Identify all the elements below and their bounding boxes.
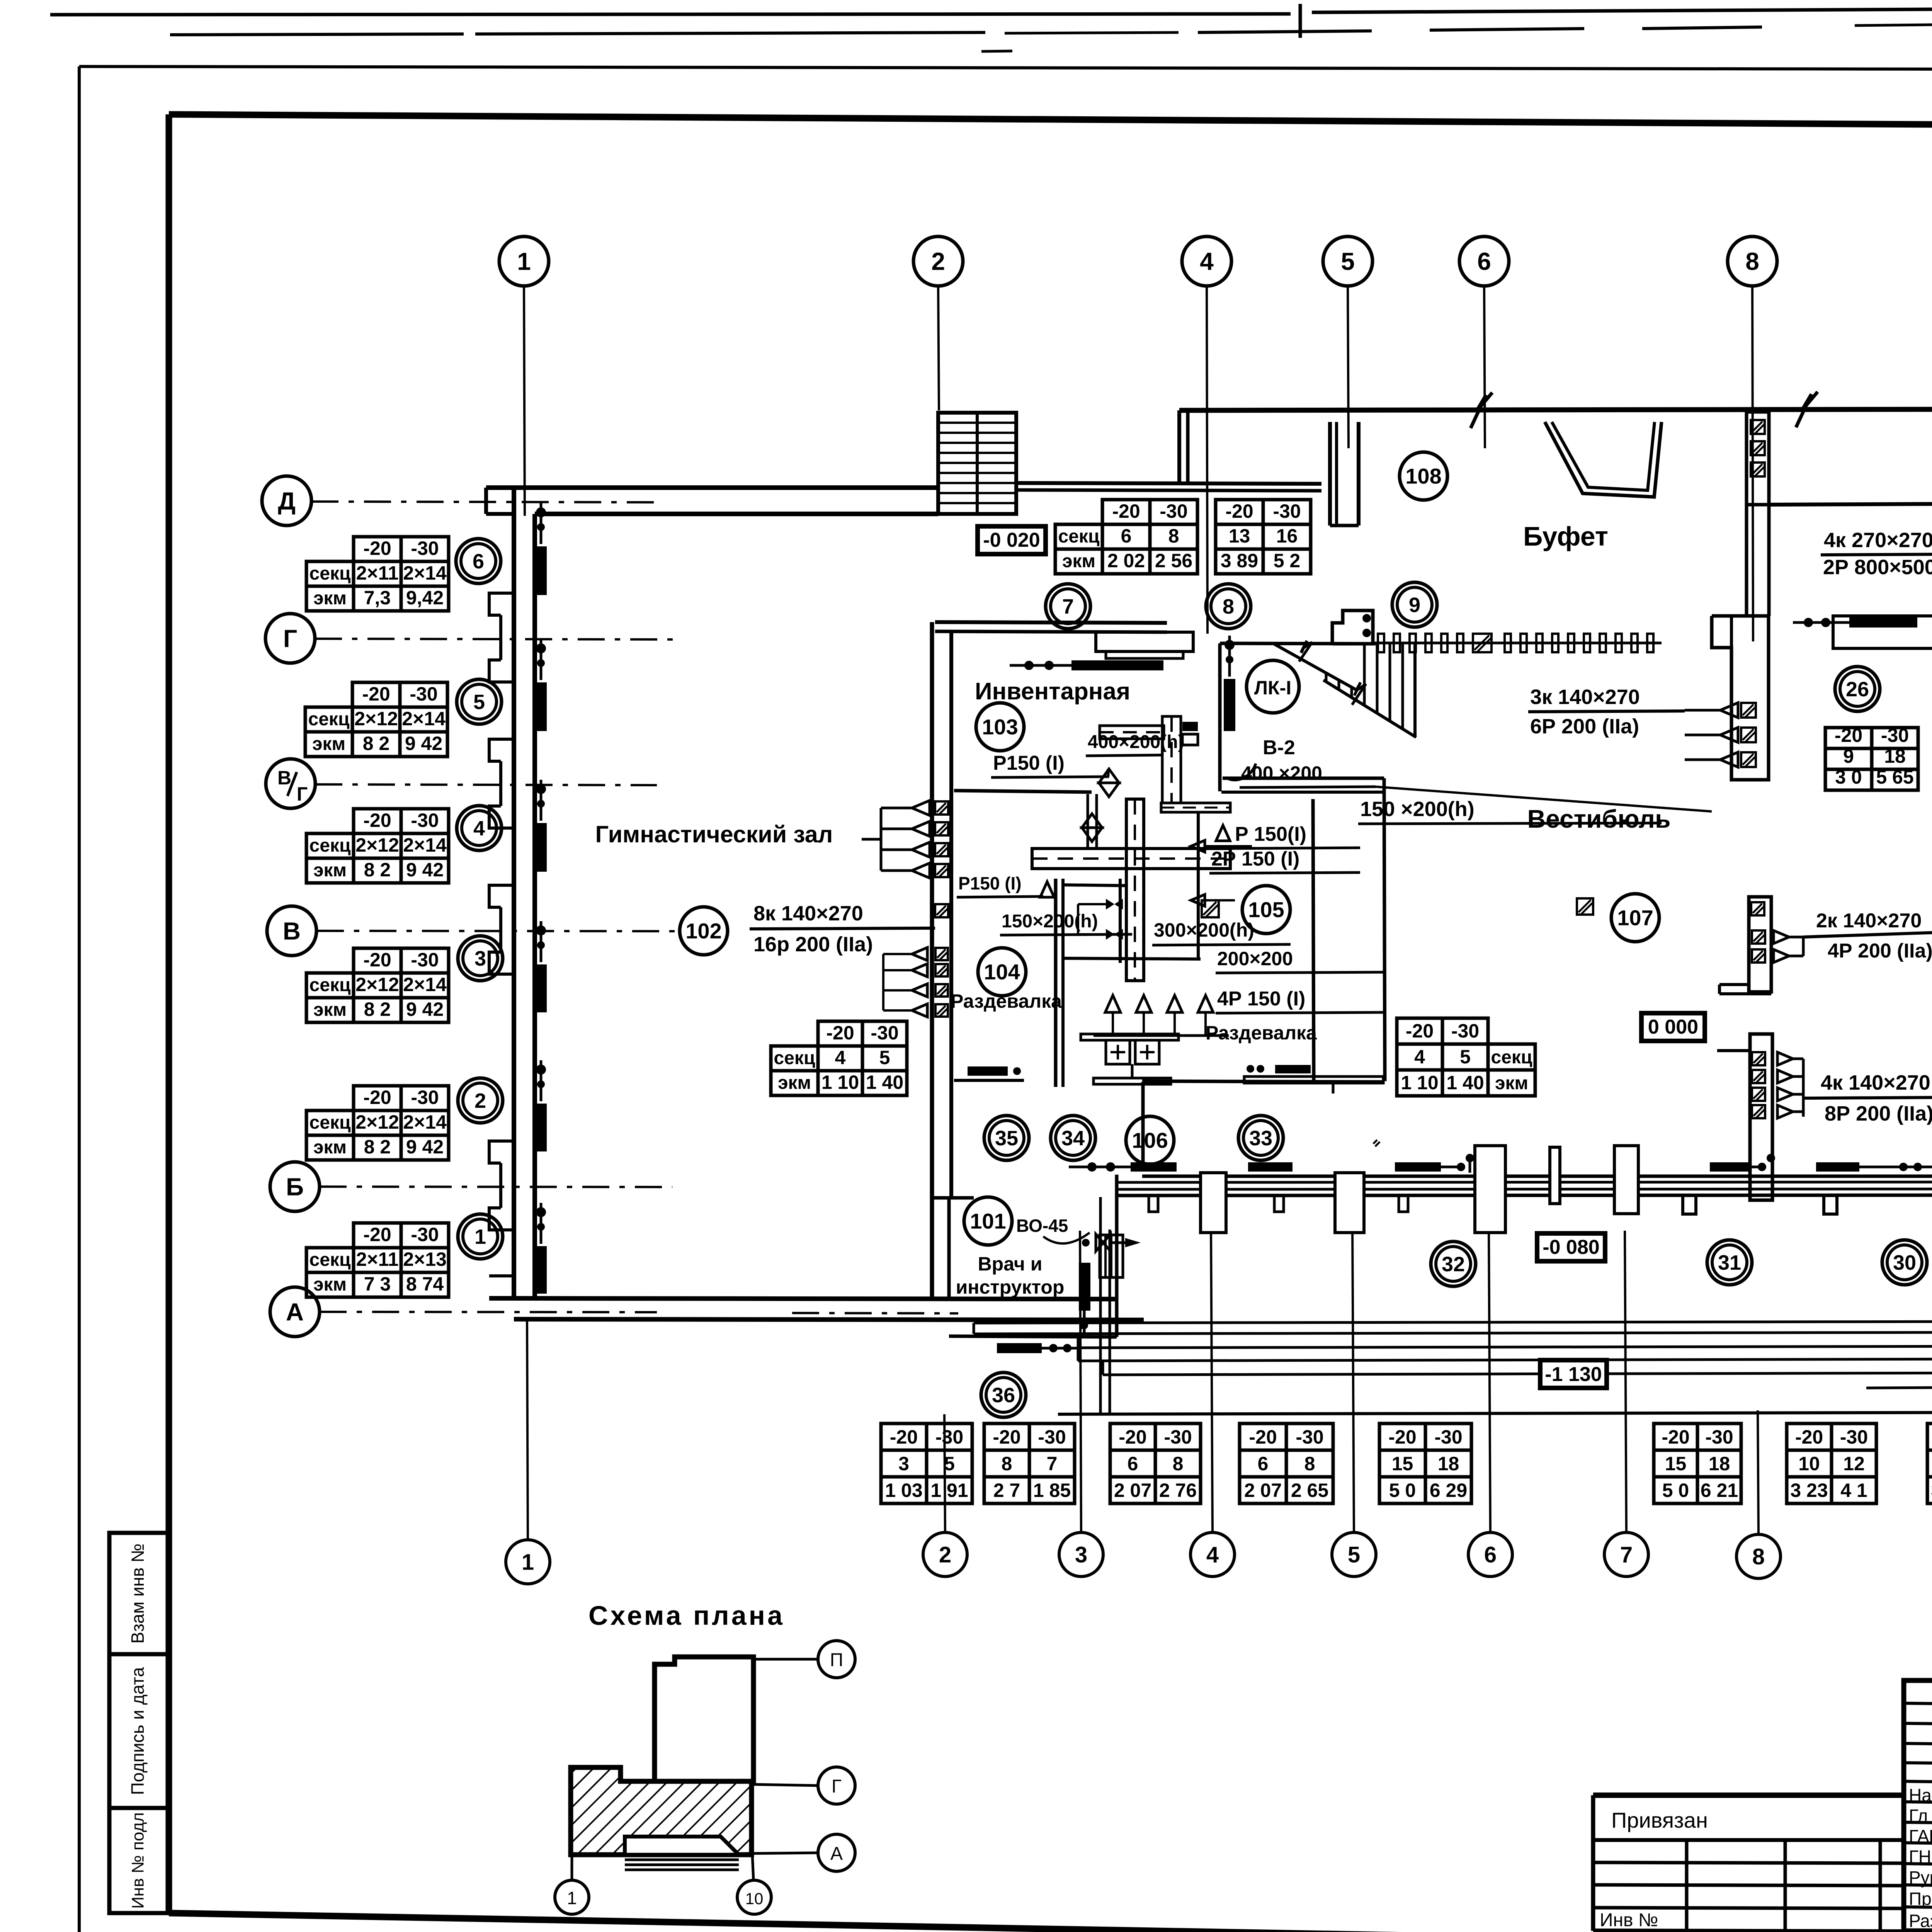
svg-text:7,3: 7,3 — [364, 587, 391, 609]
svg-text:8 2: 8 2 — [363, 733, 390, 754]
pier 4k at foyer south — [1750, 1034, 1772, 1200]
svg-text:5: 5 — [944, 1453, 955, 1475]
bench room 105 — [1244, 1077, 1383, 1083]
gym west wall radiators — [535, 546, 547, 595]
axis Б line left — [320, 1187, 672, 1187]
svg-text:10: 10 — [1798, 1453, 1820, 1475]
svg-text:18: 18 — [1709, 1453, 1730, 1475]
svg-text:экм: экм — [1062, 551, 1095, 571]
svg-text:2: 2 — [939, 1542, 951, 1567]
scan tick vertical — [1299, 4, 1302, 38]
partition wall 105 — [1313, 799, 1314, 1082]
svg-text:4: 4 — [835, 1047, 846, 1068]
svg-text:8: 8 — [1002, 1453, 1012, 1475]
svg-text:6Р 200 (IIа): 6Р 200 (IIа) — [1530, 715, 1639, 738]
svg-text:-1 130: -1 130 — [1545, 1363, 1602, 1386]
table riser 4 — [354, 809, 401, 833]
svg-text:Схема плана: Схема плана — [588, 1600, 785, 1631]
svg-text:2Р 800×500: 2Р 800×500 — [1823, 556, 1932, 579]
svg-text:4к 140×270: 4к 140×270 — [1821, 1071, 1930, 1094]
grid axis 4 line top — [1207, 286, 1207, 634]
grid3 line in channel — [1081, 1320, 1081, 1329]
buffet north-west corner wall — [1177, 410, 1181, 484]
svg-text:секц: секц — [308, 709, 350, 730]
room circle 103 — [976, 703, 1024, 751]
svg-text:2: 2 — [931, 247, 945, 275]
grid circle 5 bottom — [1332, 1532, 1376, 1577]
svg-text:8к 140×270: 8к 140×270 — [753, 902, 863, 925]
room circle 102 — [680, 907, 728, 955]
bottom table 7 — [1787, 1423, 1832, 1450]
staff table filler rows — [1904, 1703, 1932, 1706]
svg-text:4к 270×270: 4к 270×270 — [1824, 529, 1932, 552]
stair circle ЛК-I — [1247, 660, 1299, 713]
svg-text:18: 18 — [1884, 745, 1906, 767]
svg-text:7 3: 7 3 — [364, 1273, 391, 1295]
svg-text:16р 200 (IIа): 16р 200 (IIа) — [753, 933, 873, 956]
grid axis 5 line bottom — [1352, 1231, 1354, 1532]
svg-text:6: 6 — [1121, 525, 1132, 547]
table riser 7 — [1102, 500, 1150, 524]
svg-text:13: 13 — [1229, 525, 1250, 547]
hatch grille 105 — [1202, 900, 1219, 917]
svg-text:В-2: В-2 — [1263, 736, 1295, 759]
label P150(I) mid with triangle — [1216, 825, 1230, 841]
table riser 5 — [352, 682, 400, 707]
grid circle 1 top — [499, 236, 549, 286]
grid axis 2 line top — [938, 286, 939, 410]
svg-text:1 40: 1 40 — [1446, 1072, 1484, 1094]
svg-text:101: 101 — [970, 1209, 1006, 1233]
grid circle 4 top — [1182, 236, 1231, 286]
svg-text:102: 102 — [685, 919, 721, 943]
room ЛК-I walls — [1220, 643, 1376, 644]
svg-text:-20: -20 — [1249, 1426, 1277, 1448]
room circle 108 — [1400, 452, 1447, 500]
small return grilles mid — [1191, 840, 1205, 852]
room circle 105 — [1242, 886, 1290, 934]
svg-text:секц: секц — [774, 1048, 815, 1068]
svg-text:-30: -30 — [935, 1426, 963, 1448]
heating mains channel pipes — [974, 1321, 1932, 1323]
svg-text:4Р 150 (I): 4Р 150 (I) — [1217, 988, 1305, 1010]
svg-text:2×14: 2×14 — [403, 974, 447, 995]
svg-text:-20: -20 — [363, 949, 391, 971]
svg-text:108: 108 — [1405, 464, 1441, 488]
return grilles bowties — [1106, 899, 1114, 910]
svg-text:5 0: 5 0 — [1389, 1480, 1416, 1501]
svg-text:7: 7 — [1620, 1542, 1633, 1567]
grid axis 8 line bottom — [1758, 1410, 1759, 1534]
bottom table 6 — [1654, 1423, 1697, 1450]
svg-text:-30: -30 — [1164, 1426, 1192, 1448]
svg-text:Разраб: Разраб — [1909, 1911, 1932, 1931]
gym east wall — [930, 622, 934, 1298]
svg-text:8 74: 8 74 — [406, 1273, 444, 1295]
partition 105 wall vertical — [1197, 811, 1200, 960]
svg-text:Инвентарная: Инвентарная — [975, 678, 1130, 705]
title block staff table frame — [1904, 1680, 1932, 1931]
bottom table 1 — [881, 1423, 927, 1450]
svg-text:32: 32 — [1442, 1253, 1465, 1276]
svg-text:9,42: 9,42 — [406, 587, 444, 609]
level box -0080 — [1537, 1233, 1605, 1261]
svg-text:8: 8 — [1745, 247, 1759, 275]
svg-text:-20: -20 — [363, 810, 391, 831]
svg-text:2 02: 2 02 — [1107, 550, 1145, 571]
svg-text:5: 5 — [879, 1047, 890, 1068]
svg-text:6 21: 6 21 — [1701, 1480, 1738, 1501]
riser circle 7 — [1046, 584, 1090, 629]
room 101 walls — [932, 1196, 974, 1200]
svg-text:300×200(h): 300×200(h) — [1154, 919, 1254, 941]
svg-text:-20: -20 — [993, 1426, 1020, 1448]
svg-text:Взам инв №: Взам инв № — [128, 1543, 148, 1643]
riser circle 32 — [1431, 1242, 1476, 1286]
svg-text:6: 6 — [1258, 1453, 1269, 1475]
svg-text:2×11: 2×11 — [356, 1248, 399, 1270]
long bottom line — [1058, 1411, 1932, 1414]
key plan axis А — [739, 1853, 818, 1854]
axis circle В/Г — [266, 759, 315, 808]
riser circle 26 — [1835, 667, 1880, 711]
svg-text:6: 6 — [473, 550, 484, 573]
svg-text:4: 4 — [1200, 247, 1214, 275]
svg-text:2 7: 2 7 — [993, 1480, 1020, 1501]
svg-text:106: 106 — [1132, 1128, 1168, 1153]
level box -0020 top — [978, 526, 1046, 554]
grid axis 6 line top — [1484, 286, 1485, 448]
svg-text:5: 5 — [1341, 247, 1355, 275]
svg-text:5: 5 — [1348, 1542, 1360, 1567]
svg-text:2×14: 2×14 — [402, 708, 446, 730]
grid circle 5 top — [1323, 236, 1372, 286]
svg-text:2×12: 2×12 — [355, 974, 399, 995]
south band radiators — [1131, 1162, 1177, 1172]
riser 36 pipes — [1099, 1197, 1102, 1413]
svg-text:-20: -20 — [890, 1426, 918, 1448]
svg-text:Гл спец: Гл спец — [1909, 1806, 1932, 1826]
svg-text:3к 140×270: 3к 140×270 — [1530, 685, 1640, 709]
staff table named rows — [1904, 1781, 1932, 1785]
room circle 106 — [1126, 1116, 1174, 1164]
svg-text:2×14: 2×14 — [403, 834, 447, 856]
duct main vertical dashed — [1126, 799, 1144, 981]
svg-text:-30: -30 — [1451, 1020, 1479, 1042]
key plan lower strip — [625, 1837, 739, 1855]
chimney shaft north — [1747, 412, 1769, 505]
pier 2k at foyer — [1749, 897, 1771, 992]
svg-text:Г: Г — [297, 783, 308, 805]
svg-text:2×14: 2×14 — [403, 562, 447, 584]
svg-text:-20: -20 — [1662, 1426, 1689, 1448]
svg-text:Подпись и дата: Подпись и дата — [128, 1667, 148, 1795]
svg-text:15: 15 — [1665, 1453, 1687, 1475]
north wall break marks — [1471, 393, 1492, 428]
axis circle Д — [262, 476, 311, 526]
svg-text:-30: -30 — [411, 1087, 439, 1108]
grid axis 1 line top — [524, 286, 525, 516]
building north wall buffet-foyer — [1179, 409, 1932, 410]
svg-text:1 91: 1 91 — [930, 1480, 968, 1501]
svg-text:ГНП: ГНП — [1909, 1847, 1932, 1867]
buffet west wall — [1328, 422, 1332, 526]
pier between vestibule and foyer — [1712, 616, 1769, 780]
svg-text:3 0: 3 0 — [1835, 766, 1862, 788]
svg-text:26: 26 — [1846, 678, 1869, 701]
scan streak top line 2 — [170, 34, 464, 35]
svg-text:6: 6 — [1477, 247, 1491, 275]
svg-text:Р150 (I): Р150 (I) — [993, 752, 1065, 774]
riser circle 31 — [1707, 1240, 1752, 1285]
rooms south wall y2798 — [1142, 1081, 1384, 1082]
svg-text:9: 9 — [1409, 594, 1420, 617]
radiator B-2 vertical — [1224, 679, 1235, 731]
bottom table 5 — [1379, 1423, 1425, 1450]
south band piers white — [1201, 1173, 1226, 1233]
bottom table 4 — [1240, 1423, 1286, 1450]
svg-text:6: 6 — [1128, 1453, 1138, 1475]
svg-text:8 2: 8 2 — [364, 859, 391, 881]
svg-text:П: П — [830, 1650, 844, 1670]
svg-text:5 2: 5 2 — [1274, 550, 1301, 571]
svg-text:2×11: 2×11 — [356, 562, 399, 584]
foyer rad left — [1849, 617, 1917, 628]
svg-text:экм: экм — [312, 734, 345, 754]
svg-text:2к 140×270: 2к 140×270 — [1816, 910, 1922, 932]
north corridor wall grid2-4 — [1016, 483, 1321, 484]
svg-text:400 ×200: 400 ×200 — [1241, 762, 1322, 784]
svg-text:ГАП: ГАП — [1909, 1826, 1932, 1846]
svg-text:9 42: 9 42 — [406, 859, 444, 881]
svg-text:8: 8 — [1168, 525, 1179, 547]
key plan axis 10 — [752, 1855, 753, 1880]
svg-text:экм: экм — [313, 1274, 347, 1295]
svg-text:Гимнастический зал: Гимнастический зал — [595, 821, 833, 847]
svg-text:2×13: 2×13 — [403, 1248, 447, 1270]
svg-text:-20: -20 — [362, 683, 390, 705]
svg-text:секц: секц — [310, 1250, 351, 1270]
svg-text:-20: -20 — [826, 1022, 854, 1044]
table riser 2 — [354, 1086, 401, 1111]
svg-text:5: 5 — [1460, 1046, 1471, 1068]
svg-text:1 10: 1 10 — [1401, 1072, 1438, 1094]
sidebar box Взам инв № — [109, 1533, 169, 1654]
valve ВО-45 bowtie — [1096, 1234, 1111, 1251]
riser circle 9 — [1392, 582, 1437, 627]
south band stubs below — [1149, 1196, 1158, 1212]
grid circle 6 top — [1459, 236, 1509, 286]
channel pipes left risers — [973, 1323, 975, 1334]
svg-text:-20: -20 — [363, 537, 391, 559]
svg-text:-30: -30 — [411, 810, 439, 831]
wall grid8 upper segment — [1745, 505, 1748, 616]
A axis wall ticks — [742, 1299, 742, 1319]
north corridor radiator — [1071, 660, 1163, 670]
supply diffusers 4P row — [1105, 995, 1121, 1012]
foyer north inner wall line — [1769, 502, 1932, 505]
grid circle 3 bottom — [1059, 1532, 1103, 1577]
gym vent grille single — [935, 904, 948, 917]
svg-text:-20: -20 — [1406, 1020, 1434, 1042]
key plan axis 1 — [571, 1855, 573, 1880]
duct shaft B-2 column — [1162, 716, 1181, 803]
svg-text:-0 080: -0 080 — [1543, 1236, 1599, 1259]
grid axis 1 line bottom — [527, 1321, 528, 1539]
axis В line left — [317, 931, 680, 931]
entry steps 101 — [1100, 1235, 1123, 1277]
entrance mat at vestibule — [1096, 632, 1193, 651]
svg-text:1 40: 1 40 — [866, 1071, 903, 1093]
grid circle 7 bottom — [1604, 1532, 1648, 1577]
svg-text:экм: экм — [313, 588, 347, 609]
svg-text:4: 4 — [1414, 1046, 1425, 1068]
svg-text:5: 5 — [473, 690, 485, 714]
svg-text:2 07: 2 07 — [1114, 1480, 1151, 1501]
svg-text:Буфет: Буфет — [1523, 521, 1608, 551]
pier vent arrows 3k — [1720, 703, 1738, 718]
svg-text:104: 104 — [984, 960, 1020, 984]
svg-text:инструктор: инструктор — [956, 1276, 1065, 1298]
grid circle 6 bottom — [1468, 1532, 1512, 1577]
svg-text:Раздевалка: Раздевалка — [1206, 1022, 1317, 1044]
svg-text:3: 3 — [474, 947, 486, 970]
table riser 6 — [354, 537, 401, 561]
bottom table 2 — [984, 1423, 1029, 1450]
benches shower room 104 — [1081, 1034, 1179, 1040]
grid circle 1 bottom — [506, 1540, 550, 1584]
svg-text:Провер: Провер — [1909, 1889, 1932, 1909]
svg-text:1: 1 — [517, 247, 531, 275]
svg-text:Р 150(I): Р 150(I) — [1235, 823, 1306, 845]
svg-text:7: 7 — [1047, 1453, 1058, 1475]
room circle 104 — [978, 948, 1026, 996]
svg-text:31: 31 — [1718, 1251, 1741, 1274]
room circle 101 — [964, 1197, 1012, 1245]
svg-text:7: 7 — [1062, 595, 1074, 618]
corridor west wall — [1141, 1082, 1145, 1166]
riser circle 1 — [458, 1214, 503, 1259]
svg-text:400×200(h): 400×200(h) — [1088, 732, 1184, 752]
table riser 3 — [354, 948, 401, 973]
room circle 107 — [1611, 894, 1659, 942]
svg-text:Г: Г — [283, 624, 297, 652]
svg-text:2×12: 2×12 — [355, 1111, 399, 1133]
svg-text:-30: -30 — [1434, 1426, 1462, 1448]
svg-text:2: 2 — [474, 1089, 486, 1112]
svg-text:2×12: 2×12 — [355, 834, 399, 856]
key plan tower outline — [655, 1657, 753, 1781]
svg-text:4: 4 — [473, 817, 485, 840]
grid circle 8 bottom — [1736, 1534, 1781, 1578]
grid circle 8 top — [1728, 236, 1777, 286]
svg-text:-20: -20 — [1795, 1426, 1823, 1448]
svg-text:16: 16 — [1276, 525, 1298, 547]
svg-text:3: 3 — [1075, 1542, 1087, 1567]
foyer vent chamber rect — [1833, 616, 1932, 648]
key plan grid10 line through bar — [751, 1781, 754, 1855]
svg-text:2 56: 2 56 — [1155, 550, 1192, 571]
svg-text:-30: -30 — [1296, 1426, 1323, 1448]
svg-text:-20: -20 — [363, 1224, 391, 1245]
svg-text:2×14: 2×14 — [403, 1111, 447, 1133]
riser circle 8 — [1206, 584, 1251, 629]
vestibule north wall room103 — [935, 622, 1167, 623]
gym south wall — [489, 1298, 1117, 1299]
axis В/Г line — [315, 784, 657, 785]
svg-text:9 42: 9 42 — [406, 998, 444, 1020]
svg-text:1 10: 1 10 — [821, 1071, 859, 1093]
gym north wall — [486, 485, 938, 490]
damper boxes — [1182, 722, 1198, 731]
axis circle Г left — [265, 614, 315, 663]
svg-text:9 42: 9 42 — [406, 1136, 444, 1158]
svg-text:Инв № подл: Инв № подл — [129, 1812, 148, 1909]
svg-text:-30: -30 — [1273, 500, 1301, 522]
key plan axis П — [753, 1658, 818, 1661]
valve riser P150 — [1087, 794, 1089, 849]
hatch grilles scattered — [1577, 898, 1593, 915]
svg-text:-0 020: -0 020 — [983, 529, 1040, 551]
grid axis 7 line bottom — [1625, 1231, 1626, 1532]
gym west wall pilasters — [489, 593, 514, 615]
svg-text:экм: экм — [313, 1000, 347, 1020]
svg-text:-20: -20 — [1835, 724, 1862, 746]
room 103 south wall — [954, 791, 1092, 792]
title block left section border — [1593, 1793, 1904, 1798]
vestibule stair ЛК-I flight — [1274, 644, 1358, 691]
riser circle 3 — [458, 936, 503, 981]
svg-text:-30: -30 — [871, 1022, 898, 1044]
svg-text:экм: экм — [313, 860, 347, 881]
svg-text:6: 6 — [1484, 1542, 1497, 1567]
svg-text:Привязан: Привязан — [1611, 1808, 1708, 1832]
grid axis 4 line bottom — [1211, 1231, 1213, 1532]
table riser 26 — [1825, 728, 1872, 748]
svg-text:секц: секц — [310, 835, 351, 856]
svg-text:Г: Г — [832, 1776, 842, 1797]
riser circle 36 — [981, 1372, 1026, 1417]
valve P150 top — [1099, 769, 1119, 783]
axis А line left — [320, 1312, 657, 1312]
svg-text:-30: -30 — [1160, 500, 1187, 522]
grid circle 4 bottom — [1190, 1532, 1235, 1577]
svg-text:150 ×200(h): 150 ×200(h) — [1360, 798, 1475, 821]
svg-text:18: 18 — [1438, 1453, 1459, 1475]
axis Д line — [311, 502, 657, 502]
svg-text:А: А — [830, 1844, 843, 1864]
duct band horizontal upper — [1161, 803, 1230, 812]
svg-text:5 0: 5 0 — [1662, 1480, 1689, 1501]
svg-text:8: 8 — [1752, 1544, 1765, 1569]
svg-text:4: 4 — [1206, 1542, 1219, 1567]
stair shaft at grid 2 top — [938, 413, 1016, 514]
svg-text:-30: -30 — [1881, 724, 1909, 746]
svg-text:-30: -30 — [411, 949, 439, 971]
svg-text:3 23: 3 23 — [1790, 1480, 1828, 1501]
axis А line mid — [792, 1313, 958, 1313]
svg-text:2Р 150 (I): 2Р 150 (I) — [1211, 848, 1299, 870]
svg-text:А: А — [286, 1298, 304, 1326]
svg-text:Нач отд.: Нач отд. — [1909, 1785, 1932, 1805]
svg-text:5 65: 5 65 — [1876, 766, 1913, 788]
sidebar box Подпись и дата — [109, 1654, 169, 1808]
svg-text:8: 8 — [1223, 595, 1234, 618]
riser circle 5 — [457, 679, 502, 724]
scan streak top line 1 — [50, 14, 1291, 15]
svg-text:107: 107 — [1617, 906, 1653, 930]
svg-text:8 2: 8 2 — [364, 1136, 391, 1158]
